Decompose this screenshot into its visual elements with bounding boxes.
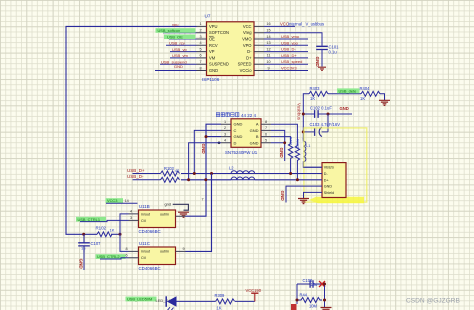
svg-text:Vreg: Vreg [243,30,252,35]
U7 left pin wires rows 2-8 [155,33,197,71]
svg-text:1K: 1K [110,228,115,233]
inductor L2 common mode choke [229,165,255,180]
svg-text:VP: VP [209,49,215,54]
U7 left pin names [209,24,229,73]
svg-text:16: 16 [266,22,270,26]
svg-text:U11C: U11C [139,241,150,246]
op-amp U11C analog switch [139,241,176,271]
wire R404 to ground [380,94,385,100]
power port red box bottom left of cluster [291,304,297,310]
wire U11C pin8 to R102 junction [120,234,129,251]
svg-text:3: 3 [130,216,132,220]
svg-text:vpu: vpu [172,22,178,27]
svg-text:6: 6 [126,254,128,258]
svg-text:D-: D- [247,49,252,54]
svg-text:2: 2 [224,126,226,130]
connector USB socket body [322,163,346,198]
svg-text:USB_dete: USB_dete [339,88,357,93]
U11C pin stubs and numbers [129,251,186,257]
svg-text:GND: GND [201,144,206,155]
svg-text:GND: GND [209,68,218,73]
wire D+ line (bottom) [181,179,322,181]
svg-text:1: 1 [224,120,226,124]
capacitor C108 [297,278,325,288]
svg-text:OE: OE [209,37,215,42]
inductor L1 (vertical) [303,138,322,167]
svg-text:USB_rcv: USB_rcv [169,41,185,46]
connector pin names [324,166,335,195]
svg-text:Vusbbus: Vusbbus [297,103,302,121]
svg-text:SOFTCON: SOFTCON [209,30,229,35]
svg-text:USB_D-: USB_D- [281,47,296,52]
svg-text:VM: VM [209,55,216,60]
svg-text:R44: R44 [300,293,308,298]
wire R309 to VCC [235,300,255,302]
svg-text:C107: C107 [91,241,102,246]
svg-text:0.1u: 0.1u [329,50,338,55]
svg-text:USB_vp: USB_vp [172,47,187,52]
ground GND below C101 [315,57,326,71]
wire Shield pin to earth [304,192,323,198]
svg-text:12: 12 [266,47,270,51]
wire VCC3 pin14 [106,202,138,204]
op-amp U7 ISP1106 body [202,14,254,82]
svg-text:3: 3 [199,35,201,39]
svg-text:1K: 1K [217,306,222,310]
svg-text:4: 4 [199,41,201,45]
capacitor C101 [316,45,339,67]
wire GND pin of connector [286,186,322,202]
svg-text:R309: R309 [215,293,226,298]
resistor R103 [161,166,180,176]
node USB_LED50M (highlighted) [126,297,157,302]
wire D- line (top) [181,173,322,175]
svg-text:VCC: VCC [243,24,252,29]
svg-text:VMO: VMO [242,37,251,42]
svg-text:C103 4.7uF/16V: C103 4.7uF/16V [310,122,341,127]
wire LED to R309 [177,300,216,302]
U7 left pin numbers 1-8 [199,22,201,70]
svg-text:USB_D+: USB_D+ [127,168,145,173]
wire USB_CTRL1 to U11B pin3 [80,220,129,221]
wire Vusbbus vertical from R403 [303,94,309,140]
op-amp U11B analog switch [139,204,176,234]
svg-text:47: 47 [175,169,179,173]
svg-text:USB_CTRL2: USB_CTRL2 [97,254,120,259]
wire C108/R44 loop left [296,284,298,304]
svg-text:USB_speed: USB_speed [281,59,302,64]
ground earth at Shield [298,199,309,204]
svg-text:1K: 1K [360,96,365,101]
U7 right pin wires rows 14-9 [264,39,308,71]
svg-text:GND: GND [79,259,84,270]
svg-text:VCC3V3: VCC3V3 [281,66,297,71]
node VCC3 label (highlighted) power pin 14 [106,198,124,203]
svg-text:GND: GND [250,128,259,133]
U11B pin stubs and numbers [129,214,186,221]
svg-text:3: 3 [224,132,226,136]
resistor R402 (vertical) [295,139,299,180]
U7 left pin stubs [197,26,207,70]
node junction U1 pin3 [205,135,208,138]
svg-text:USB_vmo: USB_vmo [281,34,300,39]
U1 pin names [234,122,243,146]
svg-text:8: 8 [126,247,128,251]
svg-text:R402: R402 [295,139,299,148]
svg-text:SPEED: SPEED [238,62,252,67]
svg-text:L2: L2 [229,165,234,170]
wire VBUS pin to L1 [303,166,322,168]
node junction at R102 left / C107 tap [82,233,85,236]
capacitor C107 [78,234,101,252]
svg-text:7: 7 [199,60,201,64]
svg-text:GND: GND [174,64,183,69]
node junctions on D lines [193,172,196,175]
wire U1 pin2 to D- line [194,130,221,173]
svg-text:SN75240PW U1: SN75240PW U1 [225,150,258,155]
diode LED D4 [166,296,176,310]
svg-text:USB_D-: USB_D- [127,174,144,179]
svg-text:GND: GND [324,185,333,189]
resistor R403 [309,86,328,101]
svg-text:USB_softcon: USB_softcon [158,28,181,33]
node USB_softcon (highlighted) [156,28,196,33]
svg-text:9: 9 [267,66,269,70]
svg-text:7: 7 [202,197,204,201]
wire U1 right pins to rail [271,124,297,161]
svg-text:VBUS: VBUS [324,166,335,170]
node USB_det (highlighted) [337,88,360,93]
wire C108/R44 loop right [324,284,326,307]
svg-text:USB_LED50M: USB_LED50M [127,297,152,302]
ground bar after R404 [379,100,390,105]
svg-text:GND: GND [250,140,259,145]
svg-text:C: C [234,128,237,133]
svg-text:VPO: VPO [243,43,252,48]
wire U11B in pin4 to R102 junction [120,214,129,234]
svg-text:GND: GND [279,148,284,159]
svg-text:13: 13 [266,41,270,45]
capacitor C103 polarized [303,114,340,137]
svg-text:10u: 10u [311,282,318,287]
svg-text:10M: 10M [309,304,318,309]
svg-text:5: 5 [265,139,267,143]
wire gnd pin7 to ground [173,204,189,210]
svg-text:5: 5 [199,47,201,51]
svg-text:6: 6 [265,132,267,136]
U7 right pin names [238,24,253,73]
svg-text:R401: R401 [289,137,293,146]
svg-text:RCV: RCV [209,43,218,48]
node no-ERC marker red X [319,281,325,287]
svg-text:out/in: out/in [160,250,169,254]
svg-text:4: 4 [224,139,226,143]
power VCC190 port [246,288,262,301]
node junction C103 tap [302,130,305,133]
node junction C102 taps [302,113,305,116]
svg-text:VPU: VPU [209,24,217,29]
svg-text:D+: D+ [246,55,252,60]
svg-text:D: D [234,140,237,145]
svg-text:USB_OE: USB_OE [167,34,183,39]
svg-text:1u: 1u [81,246,85,251]
svg-text:CD4066BC: CD4066BC [139,229,161,234]
svg-text:VCC3: VCC3 [107,198,117,203]
svg-text:14: 14 [125,199,129,203]
wire label stubs to R103/R104 [133,174,161,180]
svg-text:Ctl: Ctl [141,256,146,260]
svg-text:C102 0.1uF: C102 0.1uF [310,106,332,111]
svg-text:4: 4 [130,210,132,214]
svg-text:GND: GND [234,122,243,127]
svg-text:44 22 4: 44 22 4 [241,113,257,118]
wire VPU net: U7 pin1 to R102 [66,26,197,234]
svg-text:GND: GND [340,106,349,111]
svg-text:1: 1 [199,22,201,26]
svg-text:VCC190: VCC190 [246,288,262,293]
capacitor C102 [303,106,352,118]
svg-text:gnd: gnd [165,202,171,206]
svg-text:14: 14 [266,35,270,39]
svg-text:Shield: Shield [324,191,334,195]
svg-text:GND: GND [280,191,285,202]
svg-text:U7: U7 [205,14,211,19]
svg-text:8: 8 [265,120,267,124]
node junction GND vertical pin5 [283,141,286,144]
svg-text:8: 8 [199,66,201,70]
resistor R44 [297,293,322,309]
highlight selection rectangle [304,128,367,202]
node USB_OE (highlighted) [164,34,196,39]
svg-text:7: 7 [265,126,267,130]
svg-text:USB_D+: USB_D+ [281,53,297,58]
svg-text:1K: 1K [310,96,315,101]
wire USB_CTRL2 to U11C pin6 [100,258,129,259]
node VCCInternal_V_usbbus [280,21,324,26]
wire R102 right to junction [111,233,120,235]
highlight smear below connector [309,197,364,203]
ground bar bottom right of cluster [321,308,332,310]
ground bar at U11 gnd pin [178,212,189,217]
svg-text:R403: R403 [310,86,321,91]
resistor R102 [96,226,115,237]
svg-text:USB_vm: USB_vm [172,53,188,58]
U1 pin stubs [221,124,271,143]
svg-text:Ctl: Ctl [141,219,146,223]
U7 right pin stubs [254,26,264,70]
svg-text:in/out: in/out [141,250,150,254]
svg-text:B: B [256,134,259,139]
wire R403 to R404 [328,93,361,95]
svg-text:R102: R102 [96,226,107,231]
op-amp U1 SN75240PW body [216,113,261,155]
U7 right pin numbers 16-9 [266,22,270,70]
svg-text:2: 2 [199,29,201,33]
svg-text:in/out: in/out [141,213,150,217]
svg-text:9: 9 [183,247,185,251]
svg-text:6: 6 [199,54,201,58]
svg-text:USB_CTRL1: USB_CTRL1 [78,217,101,222]
node USB_CTRL2 (highlighted) [96,254,126,259]
svg-text:GND: GND [315,57,320,68]
svg-text:SUSPEND: SUSPEND [209,62,229,67]
resistor R309 [215,293,235,310]
svg-text:R103: R103 [164,166,175,171]
svg-text:10: 10 [266,60,270,64]
node junction at R102 right [119,233,122,236]
svg-text:CD4066BC: CD4066BC [139,266,161,271]
svg-text:USB_vpo: USB_vpo [281,40,299,45]
ground GND below C107 [79,253,85,271]
svg-text:VCCio: VCCio [240,68,253,73]
svg-text:D+: D+ [324,178,329,182]
svg-text:U11B: U11B [139,204,150,209]
wire U1 pin4 to D+ line [189,143,221,180]
resistor R401 (vertical) [288,137,292,174]
svg-text:Internal_ V_usbbus: Internal_ V_usbbus [288,21,324,26]
U1 pin numbers [224,120,267,143]
resistor R104 [161,177,180,182]
svg-text:out/in: out/in [160,213,169,217]
svg-text:R404: R404 [360,86,371,91]
node junction on U1 pin D wire [218,142,221,145]
svg-text:11: 11 [267,54,271,58]
wire U1 pin1+pin3 GND vertical [186,124,222,216]
resistor R404 [360,86,381,101]
wire U7 pin16 VCC [264,25,295,27]
svg-text:15: 15 [266,29,270,33]
svg-text:A: A [256,122,259,127]
svg-text:ISP1106: ISP1106 [202,77,220,82]
node junctions bottom cluster [296,299,299,302]
svg-text:GND: GND [234,134,243,139]
node USB_CTRL1 (highlighted) [76,217,106,222]
wire U11C pin9 riser [186,174,212,252]
svg-text:CSDN @GJZGRB: CSDN @GJZGRB [406,297,461,304]
wire U7 pin15 to C101 [264,33,322,46]
